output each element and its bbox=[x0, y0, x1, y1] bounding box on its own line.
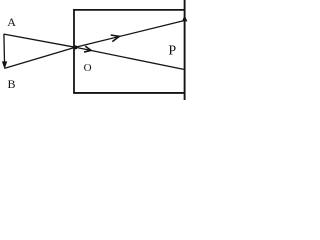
svg-text:P: P bbox=[168, 44, 176, 59]
arrowhead on upper ray bbox=[111, 33, 120, 42]
object arrowhead at B bbox=[2, 61, 7, 69]
wire ray A to O bbox=[4, 34, 76, 47]
box top edge bbox=[73, 9, 185, 11]
wire ray B to O bbox=[5, 47, 76, 68]
object arrow AB shaft bbox=[3, 34, 6, 63]
image arrowhead on screen (points up) bbox=[182, 15, 187, 21]
svg-text:A: A bbox=[7, 15, 16, 29]
pinhole dot O bbox=[73, 45, 77, 49]
svg-text:O: O bbox=[84, 62, 92, 74]
arrowhead on lower ray bbox=[84, 46, 92, 53]
svg-text:B: B bbox=[7, 77, 15, 91]
background bbox=[0, 0, 189, 100]
box right edge (screen, full height) bbox=[184, 0, 186, 100]
box left edge bbox=[73, 9, 75, 94]
box bottom edge bbox=[73, 92, 185, 94]
wire ray O to A' (lower) bbox=[75, 47, 183, 69]
wire ray O to B' (upper) bbox=[75, 21, 184, 48]
